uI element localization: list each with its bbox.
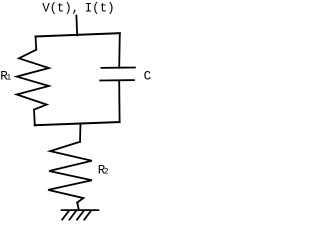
wire: left branch bottom lead	[33, 110, 36, 126]
svg-text:V(t),: V(t),	[42, 1, 79, 15]
wire: input stub from label to top rail	[75, 16, 78, 36]
resistor R2	[48, 142, 92, 203]
wire: bottom rail	[35, 122, 120, 125]
svg-text:C: C	[144, 70, 152, 84]
wire: right branch top lead	[118, 33, 121, 67]
wire: right branch bottom lead	[118, 80, 120, 122]
wire: left branch top lead	[35, 37, 38, 50]
wire: R2 bottom lead to ground	[77, 203, 79, 210]
svg-text:I(t): I(t)	[85, 1, 115, 15]
wire: top rail	[36, 33, 120, 36]
ground	[62, 210, 99, 220]
svg-text:R1: R1	[0, 70, 11, 84]
capacitor C bottom plate	[100, 79, 134, 81]
capacitor C top plate	[101, 67, 134, 69]
svg-text:R2: R2	[98, 164, 109, 178]
wire: lead from bottom rail node to R2	[79, 123, 82, 141]
resistor R1	[17, 50, 49, 110]
